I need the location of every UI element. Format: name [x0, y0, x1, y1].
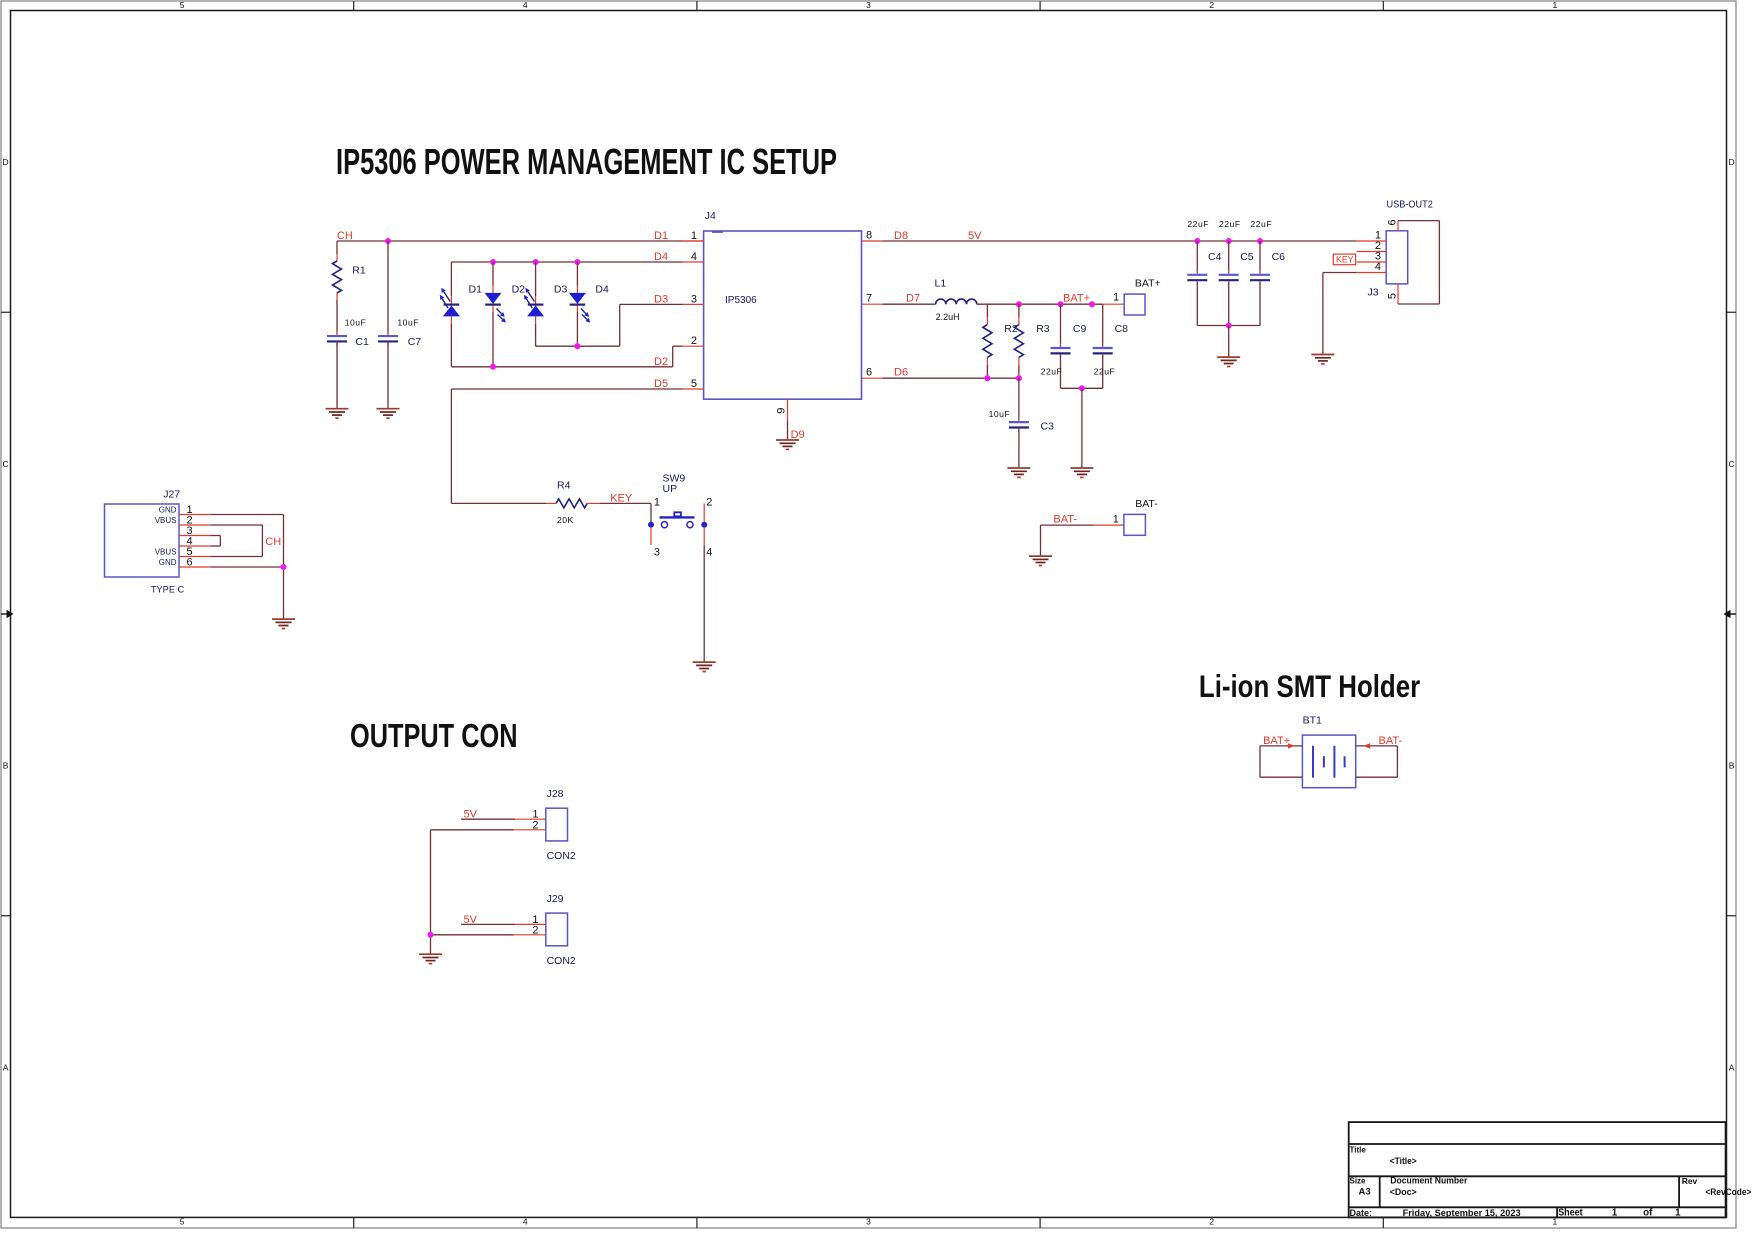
wire LED D4 top [576, 262, 578, 286]
svg-text:UP: UP [663, 483, 678, 495]
connector USB-OUT2 J3 [1386, 231, 1408, 284]
wire C5 to rail [1228, 282, 1230, 325]
wire LED D2 bottom [492, 312, 494, 367]
LED D2 bottom lead [492, 305, 494, 312]
junction R3 bottom [1016, 375, 1022, 381]
svg-text:D1: D1 [469, 283, 483, 295]
R3 bottom lead [1018, 357, 1020, 365]
wire SW9 pin4 to ground [703, 545, 705, 662]
junction 5V rail [1226, 238, 1232, 244]
IC J4 IP5306 [704, 231, 862, 399]
svg-text:KEY: KEY [610, 492, 633, 504]
svg-text:D2: D2 [512, 283, 526, 295]
svg-text:1: 1 [691, 230, 697, 242]
svg-text:Size: Size [1350, 1177, 1367, 1186]
connector J29 [546, 913, 568, 946]
svg-text:C4: C4 [1208, 251, 1222, 263]
svg-text:C: C [1729, 459, 1735, 469]
pin 2 stub SW9 [703, 503, 705, 521]
junction BAT+ rail [1058, 301, 1064, 307]
svg-text:C5: C5 [1240, 251, 1254, 263]
svg-text:Document Number: Document Number [1390, 1176, 1467, 1186]
pin 1 stub J29 [515, 923, 546, 925]
wire D5 vertical to R4 [450, 389, 452, 503]
wire USB pin4 [1323, 272, 1357, 274]
wire USB loop top [1398, 220, 1439, 222]
svg-text:6: 6 [187, 557, 193, 569]
junction C9C8 rail [1079, 385, 1085, 391]
wire to R4 [451, 502, 546, 504]
wire R3 bottom [1018, 365, 1020, 378]
wire L1 to BAT+ [977, 303, 1103, 305]
capacitor C4 [1187, 270, 1207, 285]
LED D3 bottom lead [535, 316, 537, 324]
wire BT1 left loop vertical [1259, 746, 1261, 777]
border tick bottom [1039, 1217, 1041, 1228]
svg-text:CON2: CON2 [547, 850, 576, 862]
svg-text:KEY: KEY [1336, 254, 1354, 265]
wire J27 pin2 [210, 524, 262, 526]
LED D3 [524, 288, 544, 317]
svg-text:TYPE C: TYPE C [151, 584, 185, 594]
LED D2 top lead [492, 286, 494, 293]
wire C6 to rail [1259, 282, 1261, 325]
svg-text:D5: D5 [654, 378, 668, 390]
connector BAT- [1124, 514, 1146, 535]
wire BAT- net [1041, 524, 1094, 526]
ground J27 [272, 619, 295, 628]
wire D4 net rail [451, 261, 682, 263]
R1 top lead [336, 254, 338, 261]
wire J27 pin3 [210, 535, 220, 537]
wire D2 net to pin2 [673, 345, 683, 347]
svg-text:D1: D1 [654, 230, 668, 242]
pin 5 stub J4 left [683, 388, 704, 390]
svg-text:<Doc>: <Doc> [1390, 1187, 1417, 1198]
svg-text:Li-ion SMT Holder: Li-ion SMT Holder [1199, 668, 1420, 704]
svg-text:3: 3 [866, 1217, 871, 1227]
connector BAT+ [1124, 294, 1145, 315]
border tick top [696, 1, 698, 11]
wire C9 top [1060, 304, 1062, 346]
R4 left lead [546, 502, 556, 504]
svg-text:1: 1 [1612, 1208, 1618, 1219]
svg-text:Date:: Date: [1350, 1208, 1373, 1218]
svg-text:BAT-: BAT- [1053, 514, 1077, 526]
svg-text:D2: D2 [654, 356, 668, 368]
wire BT1 right loop vertical [1396, 746, 1398, 777]
pin 4 stub SW9 [703, 528, 705, 545]
pin 4 stub USB-OUT2 [1357, 272, 1387, 274]
wire D5 net horizontal [451, 388, 682, 390]
wire USB pin4 vertical [1322, 273, 1324, 355]
svg-text:C8: C8 [1115, 323, 1129, 335]
pin 4 stub J4 left [683, 261, 704, 263]
junction 5V rail [1194, 238, 1200, 244]
svg-text:<RevCode>: <RevCode> [1705, 1187, 1751, 1198]
border tick bottom [353, 1217, 355, 1228]
pin 2 stub J28 [514, 829, 546, 831]
pin 1 stub J4 [683, 240, 704, 242]
svg-text:C: C [3, 459, 9, 469]
svg-text:2: 2 [1209, 0, 1214, 10]
pin 3 stub J27 [179, 535, 210, 537]
svg-text:20K: 20K [557, 515, 574, 525]
svg-text:4: 4 [706, 547, 712, 559]
svg-text:J4: J4 [705, 210, 716, 222]
pin 3 stub USB-OUT2 [1357, 261, 1387, 263]
switch SW9 [648, 512, 707, 528]
svg-text:Sheet: Sheet [1558, 1208, 1583, 1219]
svg-text:GND: GND [159, 505, 177, 514]
wire to SW9 pin1 [650, 503, 652, 524]
svg-text:6: 6 [1387, 219, 1399, 225]
border center arrow left [1, 610, 14, 619]
svg-text:Rev: Rev [1682, 1176, 1698, 1186]
R1 bottom lead [336, 293, 338, 300]
pin 3 stub J4 left [683, 303, 704, 305]
svg-text:10uF: 10uF [345, 317, 367, 327]
svg-text:D7: D7 [906, 293, 920, 305]
capacitor C8 [1093, 343, 1113, 358]
wire C7 to ground [387, 341, 389, 409]
svg-text:A: A [3, 1062, 9, 1072]
svg-text:J28: J28 [547, 788, 564, 800]
pin 2 stub J4 left [683, 345, 704, 347]
svg-text:4: 4 [691, 251, 697, 263]
svg-text:3: 3 [691, 293, 697, 305]
border tick right [1727, 311, 1737, 313]
svg-text:9: 9 [776, 408, 788, 414]
wire C3 to ground [1018, 429, 1020, 468]
svg-text:CON2: CON2 [547, 955, 576, 967]
wire J27 pin1 [210, 514, 283, 516]
svg-text:L1: L1 [935, 278, 947, 290]
wire rail to ground [1228, 326, 1230, 358]
wire BT1 left loop bottom [1260, 776, 1302, 778]
pin 6 stub USB-OUT2 [1397, 221, 1399, 231]
wire D3 net vertical [619, 304, 621, 346]
svg-text:of: of [1643, 1208, 1653, 1219]
junction CH/C7 [385, 238, 391, 244]
LED D1 top lead [450, 296, 452, 304]
svg-text:10uF: 10uF [989, 409, 1011, 419]
LED D3 top lead [535, 296, 537, 304]
LED D1 bottom lead [450, 316, 452, 324]
pin 8 stub J4 right [862, 240, 883, 242]
wire 5V J29 [461, 923, 515, 925]
inductor L1 [936, 299, 977, 304]
svg-text:D: D [3, 157, 9, 167]
wire LED D3 bottom [535, 324, 537, 346]
ground C3 [1007, 468, 1030, 477]
svg-text:J29: J29 [547, 893, 564, 905]
pin arrow BT1 right [1364, 743, 1371, 748]
junction J29 gnd [428, 932, 434, 938]
ground C7 [377, 409, 400, 418]
resistor R2 [983, 325, 992, 358]
junction BAT+ rail [1089, 301, 1095, 307]
svg-text:USB-OUT2: USB-OUT2 [1387, 198, 1433, 210]
svg-text:J3: J3 [1368, 287, 1379, 299]
svg-text:1: 1 [1553, 0, 1558, 10]
wire R2 top [986, 304, 988, 317]
border tick bottom [1382, 1217, 1384, 1228]
svg-text:D3: D3 [654, 293, 668, 305]
wire D6 net [883, 377, 1019, 379]
wire R3 to C3 [1018, 378, 1020, 420]
LED D4 top lead [576, 286, 578, 293]
wire 5V net [883, 240, 1357, 242]
svg-text:Friday, September 15, 2023: Friday, September 15, 2023 [1403, 1208, 1521, 1219]
wire J27 pin6 [210, 566, 283, 568]
wire J27 pin4 [210, 545, 220, 547]
LED D4 bottom lead [576, 305, 578, 312]
svg-text:VBUS: VBUS [155, 516, 177, 525]
battery cells BT1 [1313, 746, 1345, 778]
title block [1349, 1122, 1726, 1217]
ground C1 [326, 409, 349, 418]
LED D2 [485, 293, 506, 323]
wire C9 bottom [1060, 355, 1062, 388]
svg-text:22uF: 22uF [1094, 367, 1116, 377]
wire J27 gnd vertical [283, 515, 285, 620]
wire LED D3 top [535, 262, 537, 296]
svg-text:R1: R1 [352, 264, 366, 276]
wire J27 pin34 vertical [219, 536, 221, 547]
svg-text:5: 5 [180, 1217, 185, 1227]
wire KEY net [600, 502, 651, 504]
ground USB pin4 [1311, 355, 1334, 364]
wire D3 net rail [536, 345, 620, 347]
svg-text:BAT+: BAT+ [1063, 293, 1090, 305]
svg-text:1: 1 [1113, 292, 1119, 304]
ground C9C8 [1070, 468, 1093, 477]
wire BAT- to ground [1040, 525, 1042, 556]
wire R2 bottom [986, 365, 988, 378]
wire C8 bottom [1102, 355, 1104, 388]
svg-text:D: D [1729, 157, 1735, 167]
junction D3 rail [574, 343, 580, 349]
IC J4 top mark [712, 231, 723, 233]
svg-text:10uF: 10uF [397, 317, 419, 327]
svg-text:1: 1 [654, 497, 660, 509]
wire C9-C8 bottom rail [1061, 387, 1103, 389]
border tick top [1382, 1, 1384, 11]
svg-text:BAT-: BAT- [1379, 735, 1403, 747]
wire CH to R1 [336, 241, 338, 254]
wire LED D1 bottom [450, 324, 452, 367]
capacitor C9 [1051, 343, 1071, 358]
junction 5V rail [1257, 238, 1263, 244]
svg-text:2.2uH: 2.2uH [936, 312, 960, 322]
junction D2 rail [490, 364, 496, 370]
svg-text:D8: D8 [894, 230, 908, 242]
wire to C7 [387, 241, 389, 334]
wire C4 to rail [1196, 282, 1198, 325]
pin 5 stub USB-OUT2 [1397, 284, 1399, 304]
wire J29 pin2 [431, 934, 514, 936]
wire C1 to ground [336, 341, 338, 409]
svg-text:5: 5 [1387, 293, 1399, 299]
svg-text:2: 2 [532, 819, 538, 831]
ground SW9 [693, 662, 716, 671]
wire R1 to C1 [336, 300, 338, 334]
wire LED D4 bottom [576, 312, 578, 346]
pin 7 stub J4 right [862, 303, 883, 305]
svg-text:D6: D6 [894, 367, 908, 379]
wire J27 pin5 [210, 556, 262, 558]
pin 1 stub J27 [179, 514, 210, 516]
svg-text:B: B [3, 761, 9, 771]
svg-text:22uF: 22uF [1041, 367, 1063, 377]
svg-text:A: A [1729, 1062, 1735, 1072]
svg-text:4: 4 [523, 1217, 528, 1227]
junction D4 rail [533, 259, 539, 265]
R2 top lead [986, 317, 988, 325]
svg-text:D4: D4 [595, 283, 609, 295]
junction D4 rail [574, 259, 580, 265]
wire D7 to L1 [883, 303, 936, 305]
junction BAT+ rail [1016, 301, 1022, 307]
wire CH net horizontal [337, 240, 683, 242]
pin 2 stub J27 [179, 524, 210, 526]
pin 1 stub J28 [515, 818, 546, 820]
junction J27 gnd [281, 564, 287, 570]
pin 1 stub BAT- con [1094, 524, 1124, 526]
svg-text:C1: C1 [355, 336, 369, 348]
svg-text:OUTPUT CON: OUTPUT CON [350, 718, 518, 755]
svg-text:D3: D3 [554, 283, 568, 295]
svg-text:8: 8 [866, 230, 872, 242]
wire C4-C6 bottom rail [1197, 325, 1260, 327]
svg-text:D4: D4 [654, 251, 668, 263]
svg-text:IP5306: IP5306 [725, 295, 757, 306]
pin 1 stub USB-OUT2 [1357, 240, 1387, 242]
svg-text:BT1: BT1 [1303, 714, 1322, 726]
svg-text:5V: 5V [968, 230, 982, 242]
capacitor C7 [378, 331, 398, 346]
svg-text:GND: GND [159, 558, 177, 567]
pin 1 stub BAT+ con [1103, 303, 1125, 305]
wire J27 CH loop vertical [261, 525, 263, 557]
svg-text:VBUS: VBUS [155, 547, 177, 556]
border tick top [353, 1, 355, 11]
R3 top lead [1018, 317, 1020, 325]
wire D3 net to pin3 [620, 303, 683, 305]
svg-text:C7: C7 [408, 336, 422, 348]
resistor R3 [1014, 325, 1023, 358]
border tick left [1, 311, 11, 313]
svg-text:2: 2 [691, 335, 697, 347]
svg-text:6: 6 [866, 367, 872, 379]
junction C5 rail [1226, 323, 1232, 329]
wire rail to ground2 [1081, 388, 1083, 468]
wire to C4 [1196, 241, 1198, 273]
wire J28 pin2 [431, 829, 514, 831]
svg-text:<Title>: <Title> [1390, 1156, 1417, 1167]
svg-text:C9: C9 [1073, 323, 1087, 335]
wire C8 top [1102, 304, 1104, 346]
ground BAT- [1029, 556, 1052, 565]
svg-text:22uF: 22uF [1219, 219, 1241, 229]
wire BT1 right loop bottom [1356, 776, 1398, 778]
capacitor C1 [327, 331, 347, 346]
wire to C6 [1259, 241, 1261, 273]
svg-text:1: 1 [1113, 514, 1119, 526]
pin 6 stub J27 [179, 566, 210, 568]
border tick right [1727, 915, 1737, 917]
wire D2 net vertical [672, 346, 674, 367]
junction D4 rail [490, 259, 496, 265]
svg-text:BAT+: BAT+ [1135, 277, 1161, 289]
pin arrow BT1 left [1288, 743, 1295, 748]
pin 1 stub J4 left [683, 240, 704, 242]
wire LED D2 top [492, 262, 494, 286]
net label KEY box [1333, 254, 1355, 265]
svg-text:CH: CH [265, 536, 281, 548]
svg-text:A3: A3 [1359, 1187, 1371, 1198]
wire R3 top [1018, 304, 1020, 317]
wire D2 net rail [451, 366, 672, 368]
border center arrow right [1724, 610, 1737, 619]
pin 4 stub J27 [179, 545, 210, 547]
R4 right lead [587, 502, 599, 504]
svg-text:C3: C3 [1041, 421, 1055, 433]
border tick left [1, 915, 11, 917]
battery BT1 [1302, 735, 1355, 788]
svg-text:3: 3 [866, 0, 871, 10]
svg-text:2: 2 [1209, 1217, 1214, 1227]
ground C5 [1217, 357, 1240, 366]
LED D4 [569, 293, 590, 323]
svg-text:BAT-: BAT- [1135, 498, 1158, 510]
wire pin9 to ground [787, 420, 789, 440]
svg-text:R3: R3 [1036, 323, 1050, 335]
svg-text:1: 1 [1675, 1208, 1681, 1219]
svg-text:5: 5 [691, 378, 697, 390]
wire USB loop right [1438, 221, 1440, 304]
svg-text:2: 2 [532, 924, 538, 936]
pin 9 stub J4 [787, 399, 789, 420]
capacitor C5 [1219, 270, 1239, 285]
pin 2 stub USB-OUT2 [1357, 251, 1387, 253]
pin 2 stub J29 [514, 934, 546, 936]
svg-text:B: B [1729, 761, 1735, 771]
svg-text:Title: Title [1350, 1145, 1367, 1154]
resistor R1 [333, 261, 342, 293]
svg-text:7: 7 [866, 293, 872, 305]
R2 bottom lead [986, 357, 988, 365]
svg-text:22uF: 22uF [1187, 219, 1209, 229]
connector J28 [546, 808, 568, 841]
wire to C5 [1228, 241, 1230, 273]
wire BT1 left pin [1260, 745, 1302, 747]
wire gnd vertical OUTPUT [430, 830, 432, 954]
capacitor C3 [1009, 417, 1029, 432]
svg-text:CH: CH [337, 230, 353, 242]
pin 6 stub J4 right [862, 377, 883, 379]
svg-text:3: 3 [654, 547, 660, 559]
connector J27 TYPE C [105, 504, 180, 577]
svg-text:J27: J27 [163, 488, 180, 500]
ground D9 [776, 440, 799, 449]
svg-text:4: 4 [1375, 261, 1381, 273]
border tick top [1039, 1, 1041, 11]
svg-text:R4: R4 [557, 480, 571, 492]
svg-text:2: 2 [706, 497, 712, 509]
svg-text:IP5306 POWER MANAGEMENT IC SET: IP5306 POWER MANAGEMENT IC SETUP [336, 141, 837, 182]
